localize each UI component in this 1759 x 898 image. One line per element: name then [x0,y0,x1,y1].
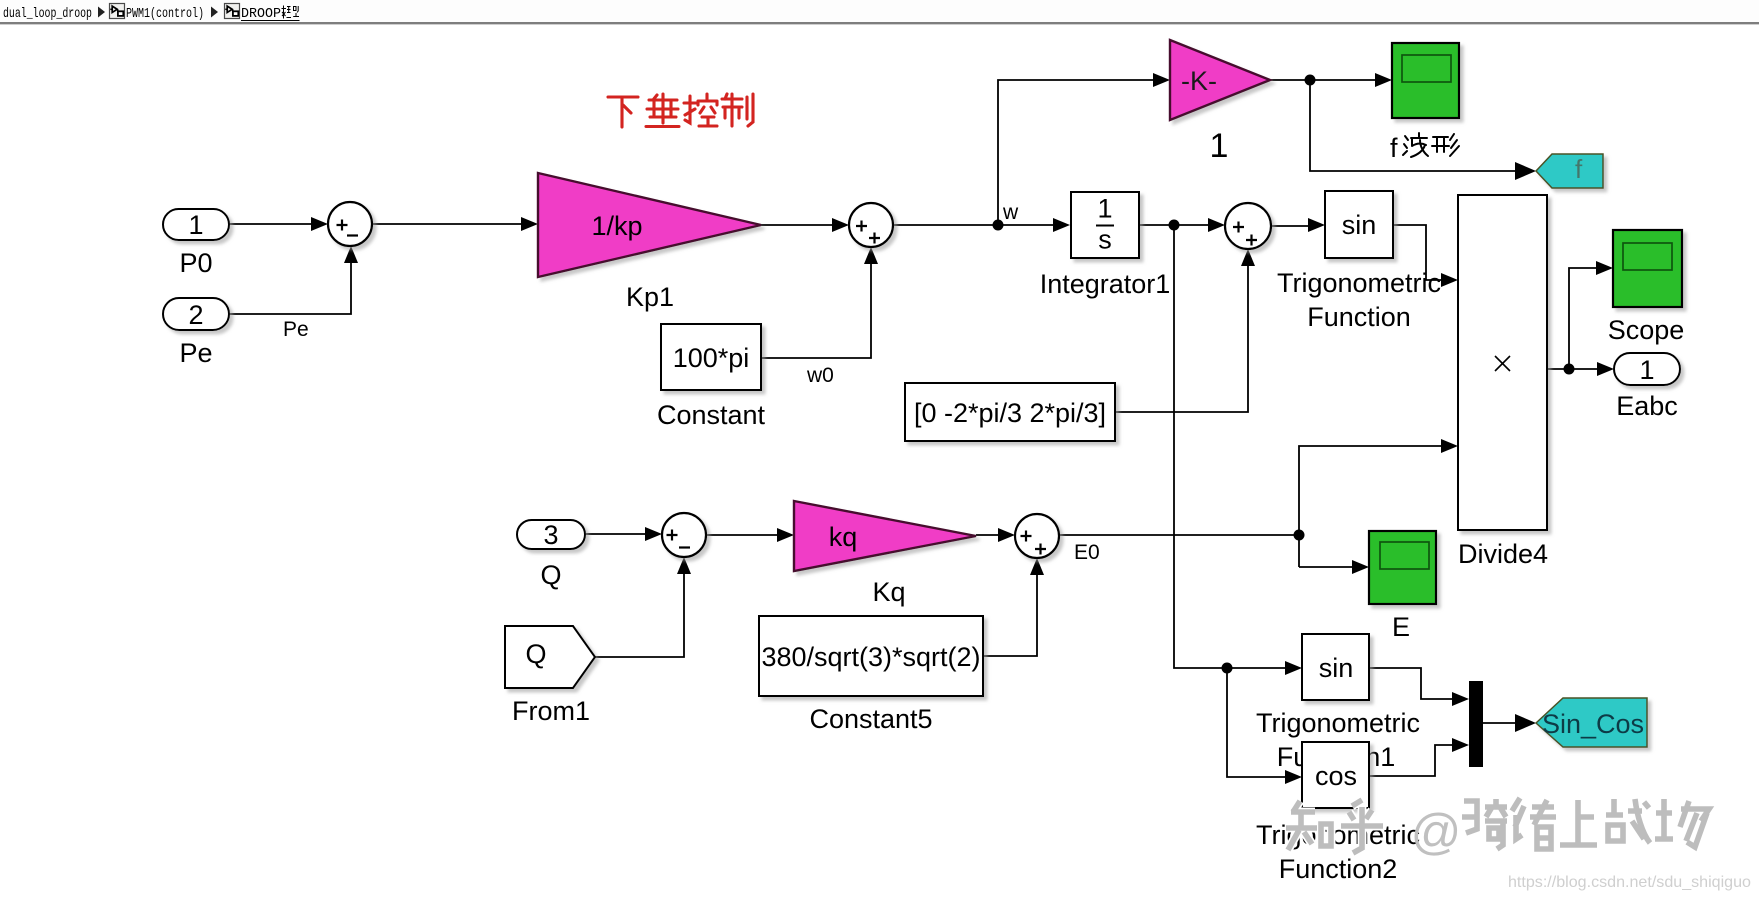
svg-text:P0: P0 [179,248,212,278]
svg-text:Kp1: Kp1 [626,282,674,312]
svg-text:Function2: Function2 [1279,854,1398,884]
svg-text:dual_loop_droop: dual_loop_droop [3,6,92,22]
svg-text:1: 1 [1097,194,1112,224]
svg-text:Integrator1: Integrator1 [1040,269,1171,299]
svg-text:w: w [1002,201,1019,224]
svg-text:E0: E0 [1074,541,1100,564]
svg-text:[0 -2*pi/3 2*pi/3]: [0 -2*pi/3 2*pi/3] [914,398,1106,428]
svg-text:1: 1 [1639,355,1654,385]
svg-text:Trigonometric: Trigonometric [1256,820,1420,850]
svg-text:380/sqrt(3)*sqrt(2): 380/sqrt(3)*sqrt(2) [761,642,980,672]
svg-text:https://blog.csdn.net/sdu_shiq: https://blog.csdn.net/sdu_shiqiguo [1508,874,1751,891]
svg-text:From1: From1 [512,696,590,726]
svg-text:Sin_Cos: Sin_Cos [1542,709,1644,739]
svg-text:100*pi: 100*pi [673,343,750,373]
svg-text:Divide4: Divide4 [1458,539,1548,569]
svg-text:f: f [1575,154,1583,184]
svg-text:Constant5: Constant5 [809,704,932,734]
svg-text:@: @ [1411,804,1462,860]
svg-text:w0: w0 [806,364,834,387]
svg-text:E: E [1392,612,1410,642]
svg-text:f: f [1390,133,1398,163]
svg-text:sin: sin [1319,653,1354,683]
svg-text:Pe: Pe [179,338,212,368]
svg-text:1/kp: 1/kp [591,211,642,241]
svg-text:1: 1 [188,210,203,240]
svg-text:Q: Q [525,639,546,669]
svg-text:Trigonometric: Trigonometric [1277,268,1441,298]
svg-text:cos: cos [1315,761,1357,791]
svg-text:Pe: Pe [283,318,309,341]
svg-text:kq: kq [829,522,858,552]
svg-text:1: 1 [1210,127,1229,165]
svg-text:DROOP: DROOP [241,6,281,22]
svg-text:Function: Function [1307,302,1411,332]
svg-text:Trigonometric: Trigonometric [1256,708,1420,738]
svg-text:Scope: Scope [1608,315,1685,345]
svg-text:2: 2 [188,300,203,330]
svg-text:Q: Q [540,560,561,590]
svg-text:Constant: Constant [657,400,766,430]
svg-text:s: s [1098,225,1112,255]
svg-text:Kq: Kq [872,577,905,607]
svg-text:Eabc: Eabc [1616,391,1678,421]
svg-text:sin: sin [1342,210,1377,240]
svg-text:PWM1(control): PWM1(control) [126,6,204,22]
svg-text:3: 3 [543,520,558,550]
svg-text:-K-: -K- [1181,66,1217,96]
